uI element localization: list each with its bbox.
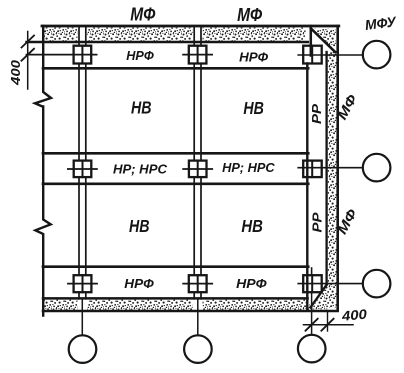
top edge line — [42, 25, 339, 28]
joint box col2 row1 — [189, 46, 207, 64]
svg-text:НВ: НВ — [131, 98, 152, 118]
right band stipple — [328, 51, 337, 308]
column 2 double lines through top band — [193, 27, 195, 45]
svg-text:НВ: НВ — [241, 216, 263, 236]
dimension 400 top-left: tick 2 — [22, 49, 35, 61]
axis leader col3 to bottom circle — [311, 292, 313, 335]
column 2 double lines below row3 — [193, 292, 195, 299]
axis leader col2 to bottom circle — [197, 299, 199, 335]
joint box col2 row3 — [189, 275, 207, 292]
right band right edge line — [336, 26, 339, 311]
right inner edge line — [306, 64, 308, 311]
joint box col3 row2 — [303, 161, 322, 178]
left wall line with break symbols — [35, 26, 51, 316]
column 1 double lines through top band — [78, 27, 80, 45]
dimension 400 top-left: dim line — [27, 32, 29, 90]
svg-text:400: 400 — [340, 307, 368, 324]
svg-text:МФ: МФ — [237, 5, 262, 25]
top foundation band stipple — [44, 28, 306, 41]
column 2 double lines row2-row3 — [193, 177, 195, 275]
svg-text:НРФ: НРФ — [124, 276, 154, 291]
top band bottom line — [27, 41, 308, 44]
axis circle bottom 1 — [69, 335, 97, 363]
row1 bottom line — [43, 67, 308, 70]
joint box col1 row2 — [74, 161, 92, 178]
axis circle bottom 2 — [184, 335, 212, 363]
column 1 double lines below row3 — [78, 292, 80, 299]
joint box col3 row1 — [303, 46, 322, 64]
bottom band channel col1 — [77, 299, 87, 311]
axis circle bottom 3 — [298, 335, 326, 363]
svg-text:НРФ: НРФ — [126, 48, 154, 63]
dimension 400 bottom-right: dim line — [304, 324, 354, 326]
bottom foundation band stipple — [44, 300, 310, 310]
svg-text:РР: РР — [310, 212, 325, 232]
bottom band top line — [43, 297, 308, 300]
row3 top line — [43, 265, 308, 268]
axis leader col1 to bottom circle — [81, 299, 83, 335]
top-right corner diagonal — [311, 29, 335, 53]
joint box col2 row2 — [189, 161, 207, 178]
svg-text:РР: РР — [309, 104, 324, 124]
svg-text:400: 400 — [8, 59, 23, 86]
svg-text:НРФ: НРФ — [239, 49, 269, 64]
leader col3 row2 to axis circle — [298, 167, 363, 169]
svg-text:НВ: НВ — [243, 98, 264, 118]
svg-text:МФУ: МФУ — [364, 13, 398, 33]
top-right corner stipple triangle — [313, 29, 336, 52]
svg-text:МФ: МФ — [130, 4, 155, 24]
svg-text:НР; НРС: НР; НРС — [113, 161, 168, 176]
column 1 double lines row1-row2 — [78, 64, 80, 161]
top-right corner vertical line — [310, 26, 313, 56]
dimension 400 top-left: tick 1 — [22, 36, 35, 48]
bottom band bottom line — [43, 310, 338, 313]
bottom-right corner stipple triangle — [312, 285, 328, 310]
dimension 400 bottom-right: extension line — [327, 311, 329, 331]
leader col3 row1 to axis circle — [298, 54, 363, 56]
axis circle right 2 — [363, 154, 391, 182]
bottom band channel col2 — [193, 299, 203, 311]
col3 axis line above row3 box — [311, 268, 313, 275]
top band channel col2 — [193, 27, 203, 45]
right band left edge line — [325, 52, 327, 285]
column 2 double lines row1-row2 — [193, 64, 195, 161]
svg-text:НВ: НВ — [129, 216, 150, 236]
bottom-right corner diagonal — [311, 284, 328, 308]
top band channel col1 — [77, 27, 87, 45]
mid row top line — [43, 152, 308, 155]
dimension 400 bottom-right: tick 2 — [321, 319, 333, 331]
leader col3 row3 to axis circle — [298, 283, 363, 285]
column 1 double lines row2-row3 — [78, 177, 80, 275]
svg-text:НРФ: НРФ — [236, 276, 267, 291]
axis circle right 3 — [363, 270, 391, 298]
joint box col1 row1 — [74, 46, 92, 64]
joint box col1 row3 — [74, 275, 92, 292]
svg-text:НР; НРС: НР; НРС — [222, 160, 275, 175]
dimension 400 bottom-right: tick 1 — [306, 319, 318, 331]
joint box col3 row3 — [303, 275, 322, 292]
mid row bottom line — [43, 182, 308, 185]
axis circle right 1 — [363, 41, 391, 69]
